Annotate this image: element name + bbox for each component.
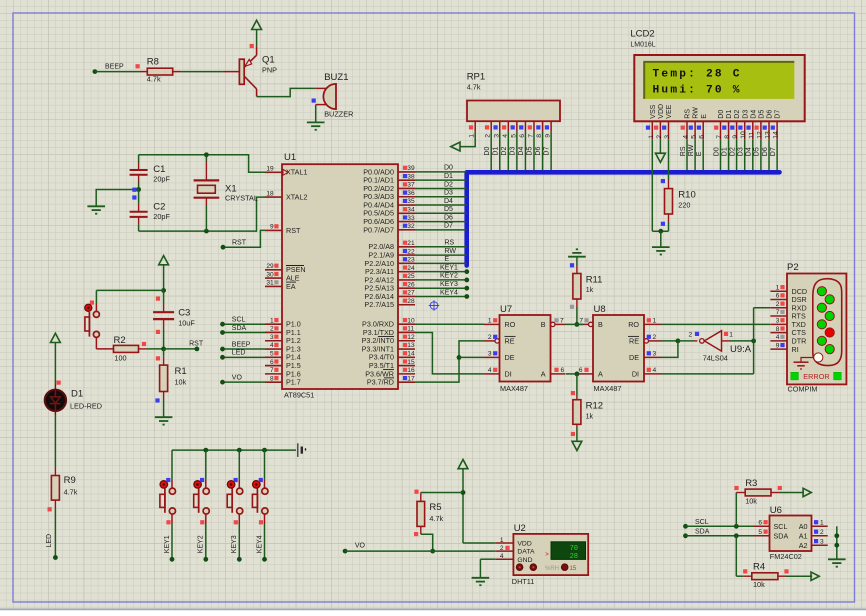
svg-text:P0.7/AD7: P0.7/AD7 bbox=[363, 225, 394, 234]
svg-text:4: 4 bbox=[683, 135, 690, 139]
svg-text:DE: DE bbox=[505, 353, 515, 362]
svg-text:CRYSTAL: CRYSTAL bbox=[225, 194, 258, 203]
svg-text:RS: RS bbox=[685, 109, 692, 119]
svg-text:R5: R5 bbox=[429, 502, 441, 513]
svg-text:A1: A1 bbox=[799, 531, 808, 540]
svg-text:KEY1: KEY1 bbox=[440, 264, 458, 271]
svg-text:RS: RS bbox=[680, 146, 687, 156]
svg-text:15: 15 bbox=[570, 566, 577, 572]
svg-text:U8: U8 bbox=[594, 304, 606, 315]
svg-text:4.7k: 4.7k bbox=[147, 75, 161, 84]
svg-text:2: 2 bbox=[500, 545, 504, 552]
svg-text:B: B bbox=[598, 320, 603, 329]
svg-text:E: E bbox=[696, 151, 703, 156]
svg-text:D5: D5 bbox=[444, 206, 453, 213]
svg-text:RE: RE bbox=[505, 337, 515, 346]
svg-text:KEY3: KEY3 bbox=[231, 535, 238, 553]
svg-text:SCL: SCL bbox=[774, 522, 788, 531]
svg-text:10k: 10k bbox=[745, 497, 757, 506]
svg-text:6: 6 bbox=[699, 135, 706, 139]
svg-text:SDA: SDA bbox=[774, 531, 789, 540]
svg-text:20pF: 20pF bbox=[153, 175, 170, 184]
svg-text:LED: LED bbox=[232, 350, 246, 357]
svg-text:26: 26 bbox=[407, 281, 415, 288]
svg-text:VO: VO bbox=[232, 375, 243, 382]
svg-text:RW: RW bbox=[693, 107, 700, 119]
svg-text:D3: D3 bbox=[444, 190, 453, 197]
svg-text:D2: D2 bbox=[729, 147, 736, 156]
svg-text:23: 23 bbox=[407, 257, 415, 264]
svg-text:RP1: RP1 bbox=[467, 72, 485, 83]
svg-text:P1.7: P1.7 bbox=[286, 378, 301, 387]
svg-text:%RH: %RH bbox=[545, 566, 559, 572]
svg-text:KEY2: KEY2 bbox=[198, 535, 205, 553]
svg-text:7: 7 bbox=[270, 367, 274, 374]
svg-text:FM24C02: FM24C02 bbox=[770, 552, 802, 561]
svg-text:R12: R12 bbox=[586, 401, 603, 412]
svg-text:5: 5 bbox=[270, 351, 274, 358]
svg-text:D4: D4 bbox=[518, 147, 525, 156]
svg-text:D6: D6 bbox=[444, 214, 453, 221]
svg-text:6: 6 bbox=[579, 367, 583, 374]
svg-text:SCL: SCL bbox=[232, 317, 246, 324]
svg-text:3: 3 bbox=[776, 318, 780, 325]
svg-text:29: 29 bbox=[266, 263, 274, 270]
svg-text:28: 28 bbox=[570, 553, 578, 561]
svg-text:100: 100 bbox=[114, 354, 126, 363]
svg-text:D5: D5 bbox=[759, 110, 766, 119]
svg-text:D2: D2 bbox=[501, 147, 508, 156]
svg-text:10: 10 bbox=[740, 131, 747, 139]
svg-text:25: 25 bbox=[407, 273, 415, 280]
svg-text:P2.7/A15: P2.7/A15 bbox=[364, 300, 394, 309]
svg-text:1: 1 bbox=[653, 318, 657, 325]
svg-text:LCD2: LCD2 bbox=[630, 29, 654, 40]
svg-text:6: 6 bbox=[561, 367, 565, 374]
svg-text:DATA: DATA bbox=[517, 549, 535, 556]
svg-text:C1: C1 bbox=[153, 164, 165, 175]
svg-text:D6: D6 bbox=[535, 147, 542, 156]
svg-text:1: 1 bbox=[648, 135, 655, 139]
svg-text:2: 2 bbox=[270, 326, 274, 333]
svg-text:4.7k: 4.7k bbox=[429, 514, 443, 523]
svg-text:DI: DI bbox=[632, 370, 639, 379]
svg-text:R11: R11 bbox=[586, 275, 603, 286]
svg-text:LM016L: LM016L bbox=[630, 42, 655, 49]
svg-text:BEEP: BEEP bbox=[232, 341, 251, 348]
svg-text:2: 2 bbox=[689, 331, 693, 338]
svg-text:R8: R8 bbox=[147, 57, 159, 68]
svg-text:BUZ1: BUZ1 bbox=[324, 72, 348, 83]
svg-text:8: 8 bbox=[270, 375, 274, 382]
svg-text:4: 4 bbox=[653, 367, 657, 374]
svg-text:6: 6 bbox=[776, 293, 780, 300]
svg-text:D6: D6 bbox=[762, 147, 769, 156]
svg-text:10k: 10k bbox=[175, 378, 187, 387]
svg-text:VDD: VDD bbox=[517, 541, 531, 548]
svg-text:1: 1 bbox=[500, 537, 504, 544]
svg-text:2: 2 bbox=[820, 529, 824, 536]
svg-text:2: 2 bbox=[776, 301, 780, 308]
svg-text:D3: D3 bbox=[738, 147, 745, 156]
svg-text:1: 1 bbox=[820, 520, 824, 527]
svg-text:11: 11 bbox=[407, 326, 414, 333]
svg-text:U7: U7 bbox=[500, 304, 512, 315]
svg-text:D2: D2 bbox=[734, 110, 741, 119]
svg-text:>: > bbox=[545, 552, 549, 558]
svg-text:2: 2 bbox=[653, 334, 657, 341]
svg-text:R10: R10 bbox=[678, 190, 695, 201]
svg-text:Humi: 70 %: Humi: 70 % bbox=[653, 85, 742, 97]
svg-text:15: 15 bbox=[407, 359, 415, 366]
svg-text:6: 6 bbox=[270, 359, 274, 366]
svg-text:BEEP: BEEP bbox=[105, 64, 124, 71]
svg-text:1: 1 bbox=[776, 284, 780, 291]
svg-text:U2: U2 bbox=[514, 523, 526, 534]
svg-text:BUZZER: BUZZER bbox=[324, 110, 353, 119]
svg-text:XTAL2: XTAL2 bbox=[286, 193, 307, 202]
svg-text:18: 18 bbox=[266, 190, 274, 197]
svg-text:D5: D5 bbox=[527, 147, 534, 156]
svg-text:A2: A2 bbox=[799, 541, 808, 550]
svg-text:39: 39 bbox=[407, 165, 415, 172]
svg-text:D4: D4 bbox=[444, 198, 453, 205]
svg-text:KEY4: KEY4 bbox=[440, 289, 458, 296]
svg-text:14: 14 bbox=[773, 131, 780, 139]
svg-text:XTAL1: XTAL1 bbox=[286, 168, 307, 177]
svg-text:220: 220 bbox=[678, 201, 690, 210]
svg-text:9: 9 bbox=[732, 135, 739, 139]
svg-text:1: 1 bbox=[729, 331, 733, 338]
svg-text:ERROR: ERROR bbox=[803, 372, 829, 381]
svg-text:U9:A: U9:A bbox=[730, 344, 752, 355]
svg-text:C2: C2 bbox=[153, 202, 165, 213]
svg-text:DI: DI bbox=[505, 370, 512, 379]
svg-text:Q1: Q1 bbox=[262, 55, 275, 66]
svg-text:PNP: PNP bbox=[262, 66, 277, 75]
svg-text:8: 8 bbox=[724, 135, 731, 139]
svg-text:D2: D2 bbox=[444, 181, 453, 188]
svg-text:D1: D1 bbox=[492, 147, 499, 156]
svg-text:16: 16 bbox=[407, 367, 415, 374]
svg-text:D1: D1 bbox=[721, 147, 728, 156]
svg-text:17: 17 bbox=[407, 375, 415, 382]
svg-text:31: 31 bbox=[266, 280, 274, 287]
svg-text:4: 4 bbox=[488, 367, 492, 374]
svg-text:27: 27 bbox=[407, 290, 415, 297]
svg-text:1: 1 bbox=[270, 317, 274, 324]
svg-text:RI: RI bbox=[792, 345, 799, 354]
svg-text:D1: D1 bbox=[71, 389, 83, 400]
svg-text:7: 7 bbox=[716, 135, 723, 139]
svg-text:20pF: 20pF bbox=[153, 212, 170, 221]
svg-text:RST: RST bbox=[232, 240, 247, 247]
svg-text:6: 6 bbox=[758, 520, 762, 527]
svg-text:8: 8 bbox=[776, 326, 780, 333]
svg-text:D6: D6 bbox=[767, 110, 774, 119]
svg-text:4.7k: 4.7k bbox=[467, 83, 481, 92]
svg-text:VO: VO bbox=[355, 543, 366, 550]
svg-text:P2: P2 bbox=[787, 262, 799, 273]
svg-text:SDA: SDA bbox=[695, 529, 710, 536]
svg-text:D0: D0 bbox=[444, 165, 453, 172]
svg-text:B: B bbox=[541, 320, 546, 329]
svg-text:D3: D3 bbox=[742, 110, 749, 119]
svg-text:D4: D4 bbox=[750, 110, 757, 119]
svg-text:32: 32 bbox=[407, 223, 415, 230]
svg-text:VDD: VDD bbox=[658, 104, 665, 119]
svg-text:2: 2 bbox=[656, 135, 663, 139]
svg-text:RO: RO bbox=[505, 320, 516, 329]
svg-text:RE: RE bbox=[629, 337, 639, 346]
svg-text:GND: GND bbox=[517, 557, 532, 564]
svg-text:RS: RS bbox=[445, 240, 455, 247]
svg-text:11: 11 bbox=[748, 132, 755, 139]
svg-text:D0: D0 bbox=[713, 147, 720, 156]
svg-text:22: 22 bbox=[407, 248, 415, 255]
svg-text:EA: EA bbox=[286, 282, 296, 291]
svg-text:R3: R3 bbox=[745, 478, 757, 489]
svg-text:74LS04: 74LS04 bbox=[703, 354, 728, 363]
svg-text:KEY4: KEY4 bbox=[256, 535, 263, 553]
svg-text:35: 35 bbox=[407, 198, 415, 205]
svg-text:AT89C51: AT89C51 bbox=[284, 391, 314, 400]
svg-text:4: 4 bbox=[270, 342, 274, 349]
svg-text:DE: DE bbox=[629, 353, 639, 362]
svg-text:D7: D7 bbox=[775, 110, 782, 119]
svg-text:14: 14 bbox=[407, 351, 415, 358]
svg-text:RO: RO bbox=[628, 320, 639, 329]
svg-text:4: 4 bbox=[500, 553, 504, 560]
svg-text:Temp: 28 C: Temp: 28 C bbox=[653, 68, 742, 80]
svg-text:70: 70 bbox=[570, 545, 578, 553]
svg-text:A: A bbox=[598, 370, 603, 379]
svg-text:R2: R2 bbox=[114, 335, 126, 346]
svg-text:D7: D7 bbox=[444, 223, 453, 230]
svg-text:30: 30 bbox=[266, 271, 274, 278]
svg-text:24: 24 bbox=[407, 265, 415, 272]
svg-text:LED: LED bbox=[46, 534, 53, 548]
svg-text:D7: D7 bbox=[770, 147, 777, 156]
svg-text:KEY1: KEY1 bbox=[164, 535, 171, 553]
svg-text:R4: R4 bbox=[753, 562, 765, 573]
svg-text:RW: RW bbox=[445, 248, 457, 255]
svg-text:34: 34 bbox=[407, 207, 415, 214]
svg-text:3: 3 bbox=[488, 351, 492, 358]
svg-text:13: 13 bbox=[407, 342, 415, 349]
svg-text:DHT11: DHT11 bbox=[512, 577, 535, 586]
svg-text:MAX487: MAX487 bbox=[594, 384, 622, 393]
svg-text:C3: C3 bbox=[178, 308, 190, 319]
svg-text:MAX487: MAX487 bbox=[500, 384, 528, 393]
svg-text:33: 33 bbox=[407, 215, 415, 222]
svg-text:RW: RW bbox=[688, 144, 695, 156]
svg-text:5: 5 bbox=[691, 135, 698, 139]
svg-text:2: 2 bbox=[488, 334, 492, 341]
svg-text:1k: 1k bbox=[586, 287, 594, 294]
svg-text:D3: D3 bbox=[509, 147, 516, 156]
svg-text:12: 12 bbox=[407, 334, 415, 341]
svg-text:P3.7/RD: P3.7/RD bbox=[367, 378, 394, 387]
svg-text:RST: RST bbox=[189, 340, 204, 347]
svg-text:D1: D1 bbox=[444, 173, 453, 180]
svg-text:LED-RED: LED-RED bbox=[70, 402, 102, 411]
svg-text:37: 37 bbox=[407, 182, 415, 189]
svg-text:KEY3: KEY3 bbox=[440, 281, 458, 288]
svg-text:10k: 10k bbox=[753, 580, 765, 589]
svg-text:21: 21 bbox=[407, 240, 415, 247]
svg-text:A: A bbox=[541, 370, 546, 379]
svg-text:U1: U1 bbox=[284, 152, 296, 163]
svg-text:4: 4 bbox=[776, 334, 780, 341]
svg-text:D0: D0 bbox=[484, 147, 491, 156]
svg-text:38: 38 bbox=[407, 173, 415, 180]
svg-text:R9: R9 bbox=[64, 475, 76, 486]
svg-text:1k: 1k bbox=[586, 414, 594, 421]
svg-text:7: 7 bbox=[579, 318, 583, 325]
svg-text:3: 3 bbox=[653, 351, 657, 358]
svg-text:KEY2: KEY2 bbox=[440, 273, 458, 280]
svg-text:A0: A0 bbox=[799, 522, 808, 531]
svg-text:13: 13 bbox=[765, 131, 772, 139]
svg-text:5: 5 bbox=[758, 529, 762, 536]
svg-text:D4: D4 bbox=[746, 147, 753, 156]
svg-text:36: 36 bbox=[407, 190, 415, 197]
svg-text:D5: D5 bbox=[754, 147, 761, 156]
svg-text:E: E bbox=[701, 114, 708, 119]
svg-text:D1: D1 bbox=[726, 110, 733, 119]
svg-text:VSS: VSS bbox=[650, 104, 657, 118]
svg-text:VEE: VEE bbox=[666, 104, 673, 118]
svg-text:7: 7 bbox=[560, 318, 564, 325]
svg-text:R1: R1 bbox=[175, 366, 187, 377]
svg-text:9: 9 bbox=[776, 342, 780, 349]
svg-text:4.7k: 4.7k bbox=[64, 488, 78, 497]
svg-text:3: 3 bbox=[820, 538, 824, 545]
svg-text:RST: RST bbox=[286, 226, 301, 235]
svg-text:SCL: SCL bbox=[695, 519, 709, 526]
svg-text:28: 28 bbox=[407, 298, 415, 305]
svg-text:U6: U6 bbox=[770, 505, 782, 516]
svg-text:9: 9 bbox=[270, 224, 274, 231]
svg-text:3: 3 bbox=[664, 135, 671, 139]
svg-text:19: 19 bbox=[266, 166, 274, 173]
svg-text:D7: D7 bbox=[544, 147, 551, 156]
svg-text:10uF: 10uF bbox=[178, 319, 195, 328]
svg-text:12: 12 bbox=[756, 131, 763, 139]
svg-text:1: 1 bbox=[488, 318, 492, 325]
svg-text:7: 7 bbox=[776, 309, 780, 316]
svg-text:COMPIM: COMPIM bbox=[788, 385, 818, 394]
svg-text:3: 3 bbox=[270, 334, 274, 341]
svg-text:10: 10 bbox=[407, 317, 415, 324]
svg-text:D0: D0 bbox=[718, 110, 725, 119]
svg-text:E: E bbox=[445, 256, 450, 263]
svg-text:SDA: SDA bbox=[232, 325, 247, 332]
